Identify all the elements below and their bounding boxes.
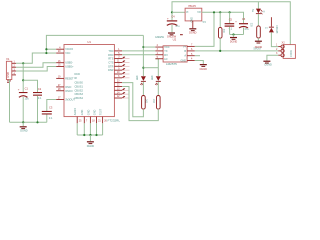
svg-text:CBUS1: CBUS1 — [75, 85, 84, 88]
wire U1 ground bus — [76, 123, 78, 135]
capacitor C3 — [42, 111, 52, 112]
svg-text:DGND: DGND — [200, 68, 208, 71]
svg-text:X1: X1 — [6, 57, 10, 61]
LED LED2 — [156, 76, 161, 81]
svg-text:47u: 47u — [244, 28, 249, 31]
wire 3V3OUT — [47, 100, 56, 111]
U1 pin 25 AGND — [76, 117, 78, 124]
svg-text:FT232RL: FT232RL — [108, 118, 121, 122]
U1 pin 19 RESET — [56, 77, 64, 79]
junction VCCIO — [45, 48, 47, 50]
ground DGND X2 — [263, 61, 270, 62]
wire R4 bottom — [219, 38, 221, 51]
junction rail-C5 — [229, 11, 231, 13]
U2 GND wire — [195, 61, 204, 65]
U1 pin 16 USBD- — [56, 62, 64, 64]
svg-text:DGND: DGND — [87, 145, 95, 148]
svg-text:GND: GND — [81, 109, 84, 115]
svg-text:TX: TX — [164, 50, 168, 53]
wire C5 top — [229, 12, 231, 23]
U2 pin 3 TX — [155, 50, 163, 52]
svg-text:GND2W: GND2W — [167, 36, 177, 39]
svg-text:GND: GND — [87, 109, 90, 115]
U1 pin 21 GND — [96, 117, 98, 124]
connector X1 USB — [6, 61, 11, 79]
svg-text:47u: 47u — [175, 25, 180, 28]
U1 pin 20 VCC — [56, 52, 64, 54]
svg-text:78L05: 78L05 — [188, 4, 196, 8]
U1 pin 4 VCCIO — [56, 48, 64, 50]
U2 pin 7 V+ — [187, 45, 195, 47]
diode D1 — [270, 17, 272, 27]
U1 pin 9 DSR — [114, 69, 122, 71]
wire X1 ground drop — [9, 80, 11, 123]
U1 pin 6 RI — [114, 77, 122, 79]
junction cap gnd — [232, 33, 234, 35]
wire R1 to CBUS0 — [122, 83, 143, 117]
wire C5 bottom — [229, 27, 231, 35]
svg-text:C6: C6 — [242, 17, 246, 21]
junction gnd3 — [95, 134, 97, 136]
svg-text:RX: RX — [164, 54, 168, 57]
junction C1-gnd — [22, 121, 24, 123]
X1 pin 4 — [12, 74, 16, 76]
wire RXD — [122, 54, 155, 56]
junction rail-R4 — [219, 11, 221, 13]
resistor R1 — [142, 96, 146, 110]
svg-text:TEST: TEST — [100, 108, 103, 115]
svg-text:0.1: 0.1 — [49, 117, 53, 120]
U1 pin 5 RXD — [114, 54, 122, 56]
U2 A stub wire — [195, 55, 200, 57]
U1 pin 27 OSCI — [56, 86, 64, 88]
svg-text:5V: 5V — [253, 8, 255, 11]
U1 pin 13 CBUS2 — [114, 89, 122, 91]
wire LED1-R1 — [142, 82, 144, 96]
svg-text:OSCI: OSCI — [65, 86, 71, 89]
svg-text:GND: GND — [93, 109, 96, 115]
junction LED branch — [142, 67, 144, 69]
svg-text:C4: C4 — [171, 15, 175, 19]
wire LED2-R2 — [157, 82, 159, 96]
svg-text:GND: GND — [181, 60, 187, 63]
svg-text:RESET: RESET — [65, 77, 74, 80]
svg-text:C2: C2 — [38, 87, 42, 91]
capacitor C1 — [19, 92, 28, 93]
svg-text:DGND: DGND — [255, 46, 263, 49]
wire R2 to CBUS1 — [122, 86, 158, 120]
svg-text:CTS: CTS — [108, 61, 113, 64]
ground DGND bottom — [89, 135, 91, 141]
wire USBD+ — [16, 67, 56, 71]
U1 pin 10 DCD — [114, 73, 122, 75]
svg-text:VI: VI — [186, 11, 189, 14]
wire reg VI — [172, 11, 185, 13]
connector X2 — [283, 45, 295, 59]
wire C3 bottom — [46, 115, 48, 123]
svg-text:+: + — [235, 20, 237, 24]
svg-text:LED: LED — [137, 75, 139, 80]
svg-text:CBUS3: CBUS3 — [75, 93, 84, 96]
U1 pin 7 GND — [83, 117, 85, 124]
U1 pin 14 CBUS3 — [114, 93, 122, 95]
svg-text:USBD+: USBD+ — [65, 66, 74, 69]
U2 pin 5 A — [187, 55, 195, 57]
svg-text:1N4148: 1N4148 — [275, 25, 277, 34]
svg-text:CON3: CON3 — [290, 50, 293, 57]
wire ground bus — [10, 121, 47, 123]
wire VCC riser — [46, 35, 143, 53]
wire X2 pin3 gnd — [267, 55, 278, 61]
junction R4 out — [219, 50, 221, 52]
svg-text:C3: C3 — [49, 106, 53, 110]
wire C1 bottom — [22, 97, 24, 122]
U1 pin 3 RTS — [114, 58, 122, 60]
X1 pin 1 — [12, 62, 16, 64]
wire 5V rail — [202, 12, 244, 23]
svg-text:U1: U1 — [87, 40, 91, 44]
wire LED3-R3 — [257, 14, 259, 26]
svg-text:VO: VO — [197, 11, 201, 14]
resistor R4 — [219, 27, 223, 38]
U1 pin 28 OSCO — [56, 90, 64, 92]
svg-text:DGND: DGND — [230, 41, 238, 44]
svg-text:1K0: 1K0 — [152, 99, 154, 104]
ground DGND R3 — [255, 41, 262, 42]
wire cap gnd bus — [230, 34, 244, 36]
U2 output wire — [195, 50, 278, 52]
U2 aux ground — [180, 34, 183, 35]
wire C1 top — [22, 63, 24, 92]
IC U2 — [163, 46, 187, 62]
svg-text:CBUS0: CBUS0 — [75, 82, 84, 85]
IC U1 FT232RL — [64, 45, 114, 117]
svg-text:VCC: VCC — [65, 52, 70, 55]
U1 pin 26 TEST — [102, 117, 104, 124]
svg-text:DGND: DGND — [265, 63, 273, 66]
wire U2 VCC branch — [143, 46, 155, 48]
wire C4 bottom — [171, 25, 173, 32]
svg-text:0.1: 0.1 — [38, 97, 42, 100]
svg-text:RXD: RXD — [108, 54, 113, 57]
svg-text:LD: LD — [164, 58, 167, 61]
svg-text:GND2W: GND2W — [155, 36, 165, 39]
capacitor C2 — [33, 92, 42, 93]
svg-text:DSR: DSR — [108, 69, 113, 72]
X1 shield pins — [7, 80, 11, 83]
U2 V+ wire — [195, 12, 214, 46]
U2 pin 5 LD — [155, 58, 163, 60]
svg-text:X2: X2 — [282, 41, 286, 45]
capacitor C6 — [239, 23, 248, 24]
svg-text:C5: C5 — [229, 17, 233, 21]
capacitor C4 — [167, 20, 177, 21]
svg-text:CBUS4: CBUS4 — [75, 97, 84, 100]
svg-text:+: + — [18, 88, 20, 92]
ground GND2 C4 — [168, 32, 175, 33]
svg-text:DTR: DTR — [108, 65, 113, 68]
svg-text:RTS: RTS — [108, 58, 113, 61]
U2 pin 1 RX — [155, 54, 163, 56]
X1 pin 2 — [12, 66, 16, 68]
U1 pin 17 3V3OUT — [56, 99, 64, 101]
ground DGND left — [22, 122, 24, 126]
svg-text:LED: LED — [152, 75, 154, 80]
junction C2 tap — [22, 79, 24, 81]
wire VCCIO branch — [46, 48, 56, 50]
wire VCC drop — [142, 35, 144, 76]
ground DGND caps — [233, 35, 235, 37]
wire VBUS — [16, 53, 46, 63]
junction VCC — [45, 52, 47, 54]
U2 pin 6 B — [187, 50, 195, 52]
junction gnd2 — [89, 134, 91, 136]
regulator IC3 78L05 — [185, 8, 202, 21]
junction VBUS-C1 — [22, 62, 24, 64]
junction C2-gnd — [36, 121, 38, 123]
svg-text:C1: C1 — [25, 87, 29, 91]
svg-text:+: + — [167, 17, 169, 21]
svg-text:AGND: AGND — [74, 108, 77, 115]
wire R4 top — [219, 12, 221, 27]
U1 pin 12 CBUS4 — [114, 97, 122, 99]
X2 pin 3 — [281, 54, 284, 57]
U1 pin 22 CBUS1 — [114, 85, 122, 87]
wire LED2 branch — [143, 67, 158, 69]
U1 pin 15 USBD+ — [56, 66, 64, 68]
svg-text:OSCO: OSCO — [65, 90, 72, 93]
capacitor C5 — [225, 23, 235, 24]
wire R3 bottom — [257, 38, 259, 41]
svg-text:LM2575: LM2575 — [166, 62, 177, 66]
X1 pin 3 — [12, 70, 16, 72]
U1 pin 18 GND — [89, 117, 91, 124]
junction gnd1 — [83, 134, 85, 136]
junction U2 VCC — [142, 46, 144, 48]
ground DGND reg — [189, 28, 196, 29]
LED LED3 — [257, 2, 259, 9]
wire TXD — [122, 50, 155, 52]
svg-text:USB: USB — [6, 72, 10, 78]
wire C6 bottom — [243, 28, 245, 35]
svg-text:10u: 10u — [25, 98, 30, 101]
junction reg VI — [171, 11, 173, 13]
U2 pin 2 VCC — [155, 46, 163, 48]
resistor R2 — [157, 96, 161, 110]
svg-text:DGND: DGND — [20, 129, 28, 132]
ground DGND U2 — [200, 64, 207, 65]
reg GND pin — [192, 21, 194, 28]
LED LED1 — [141, 76, 146, 81]
wire VCC branch — [46, 52, 56, 54]
wire U2 pin4 to LED2 — [155, 58, 158, 60]
svg-text:VCC: VCC — [164, 46, 169, 49]
wire C2 top — [23, 80, 37, 92]
U1 pin 11 CTS — [114, 61, 122, 63]
svg-text:VCCIO: VCCIO — [65, 48, 73, 51]
junction rail-U2 — [213, 11, 215, 13]
svg-text:V+: V+ — [183, 45, 187, 48]
X2 pin 2 — [281, 49, 284, 52]
svg-text:DGND: DGND — [189, 32, 197, 35]
svg-text:RI: RI — [75, 77, 78, 80]
svg-text:USBD-: USBD- — [65, 62, 73, 65]
wire USBD- — [16, 63, 56, 67]
U2 pin 4 GND — [187, 60, 195, 62]
U1 pin 23 CBUS0 — [114, 82, 122, 84]
svg-text:DCD: DCD — [75, 73, 81, 76]
X2 pin 1 — [281, 45, 284, 48]
U1 pin 1 TXD — [114, 50, 122, 52]
wire C2 bottom — [37, 96, 39, 123]
svg-text:TXD: TXD — [108, 50, 113, 53]
svg-text:1K0: 1K0 — [145, 99, 147, 104]
wire D1 to X2 pin1 — [271, 32, 278, 46]
U1 pin 2 DTR — [114, 65, 122, 67]
svg-text:CBUS2: CBUS2 — [75, 89, 84, 92]
wire reg input riser — [172, 2, 290, 45]
resistor R3 — [257, 26, 261, 38]
